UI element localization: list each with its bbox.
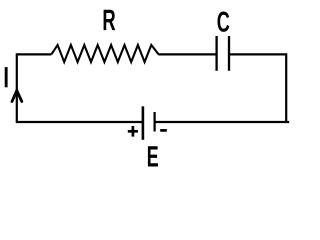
label - [160,129,167,132]
wire capacitor to top-right corner [230,53,286,55]
label E [148,146,158,166]
wire left vertical [16,54,18,122]
label R [104,10,116,30]
wire bottom-right segment [155,121,289,123]
current arrow on left wire [12,91,22,102]
label C [218,12,230,32]
label I [5,67,8,87]
wire right vertical [285,53,287,122]
resistor R zigzag [51,45,158,62]
wire between resistor and capacitor [158,53,215,55]
battery E tall plate (positive) [142,106,145,140]
capacitor C left plate [215,36,217,71]
capacitor C right plate [228,36,230,71]
label + [128,126,138,137]
wire bottom-left segment [16,121,142,123]
wire top-left segment [16,53,52,55]
battery E short plate (negative) [154,112,156,132]
